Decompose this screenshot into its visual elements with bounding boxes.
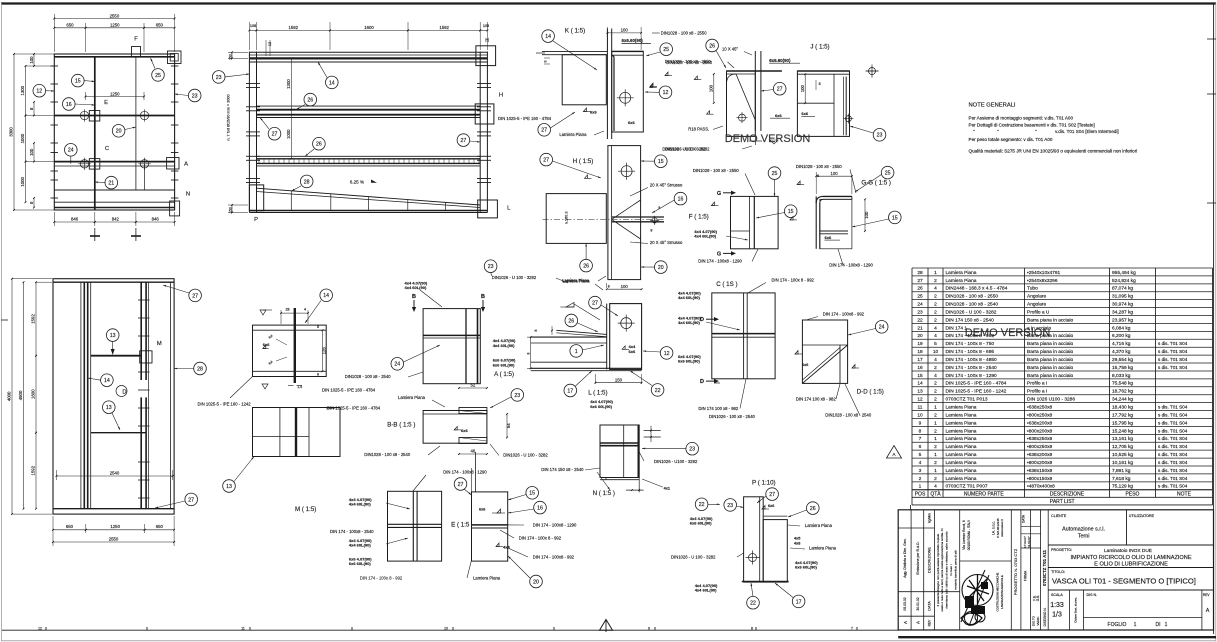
svg-text:VERIF.: VERIF. [1036,616,1040,626]
svg-text:20: 20 [116,129,122,135]
svg-text:1: 1 [934,270,937,276]
balloon 20 [655,261,668,274]
svg-text:▪638x250x8: ▪638x250x8 [1027,436,1053,442]
svg-text:▪800x150x8: ▪800x150x8 [1027,476,1053,482]
svg-text:7: 7 [851,626,853,630]
leader line [597,472,610,490]
svg-text:8: 8 [819,82,821,86]
svg-text:1592: 1592 [31,465,36,475]
leader line [736,506,743,508]
balloon 23 [212,71,225,84]
side horizontal [253,435,310,437]
balloon 26 [304,93,317,106]
svg-text:FOGLIO: FOGLIO [1108,622,1127,628]
svg-text:DIN1026 - U100 - 3282: DIN1026 - U100 - 3282 [662,147,706,152]
svg-text:15,759 kg: 15,759 kg [1112,365,1133,371]
hole mark [78,109,90,121]
balloon 1 [570,345,583,358]
weld symbol [650,86,657,88]
svg-text:6x6: 6x6 [461,428,468,433]
svg-text:64: 64 [506,423,511,428]
svg-text:2550: 2550 [109,536,119,541]
dimension 2540 [57,475,173,477]
svg-text:126: 126 [321,347,326,355]
leader line [46,90,55,92]
svg-text:108: 108 [483,24,489,28]
svg-text:6x6: 6x6 [768,504,774,508]
svg-text:FIRMA: FIRMA [1024,570,1028,581]
dimension 1600 [35,356,37,433]
svg-text:DIN 174 - 100x 8 - 2540: DIN 174 - 100x 8 - 2540 [946,365,998,371]
svg-text:NUMERO PARTE: NUMERO PARTE [964,491,1004,497]
svg-text:IMPIANTO RICIRCOLO OLIO DI LAM: IMPIANTO RICIRCOLO OLIO DI LAMINAZIONE [1070,555,1191,561]
G-G outline right [851,196,853,199]
svg-text:2: 2 [934,381,937,387]
dimension 100 [816,175,852,177]
dimension 4900 [23,282,25,509]
leader line [470,141,481,142]
titolo row [1048,589,1213,591]
leader line [112,341,114,352]
K beam [562,55,606,105]
N bottom strip [600,479,639,481]
svg-text:30.01.02: 30.01.02 [916,597,920,610]
dimension 1000 [25,162,27,203]
leader line [850,126,873,133]
leader line [305,301,321,324]
leader line [578,323,599,332]
svg-text:8: 8 [527,352,531,354]
panel outline [54,54,174,210]
leader line [508,556,530,578]
E weld marks [497,509,501,513]
svg-text:846: 846 [152,217,160,222]
svg-text:1: 1 [934,468,937,474]
svg-text:8: 8 [544,61,548,63]
svg-text:▪800x200x8: ▪800x200x8 [1027,428,1053,434]
leader line [464,489,472,495]
shelf M [91,355,142,357]
weld symbol [665,75,672,77]
svg-text:Lamiera Piana: Lamiera Piana [946,420,977,426]
svg-text:27: 27 [917,278,923,284]
svg-text:DIN 1025-5 - IPE 160 - 4784: DIN 1025-5 - IPE 160 - 4784 [322,388,376,393]
leader line [645,91,659,93]
splice bold weld line [294,308,296,383]
svg-text:30,974 kg: 30,974 kg [1112,302,1133,308]
B-B plate [423,411,487,444]
svg-text:100: 100 [830,171,838,176]
svg-text:26: 26 [583,264,589,270]
balloon 16 [674,192,687,205]
leader line [852,219,889,227]
balloon 24 [875,321,888,334]
svg-text:C ( 1S ): C ( 1S ) [716,281,737,288]
dimension 2550 [54,18,174,20]
svg-text:11: 11 [918,405,923,411]
svg-text:Terni: Terni [1078,534,1090,540]
svg-text:E: E [104,100,108,106]
svg-text:13: 13 [110,333,116,339]
svg-text:DIN 174 - 100x8 - 2540: DIN 174 - 100x8 - 2540 [330,529,374,534]
leader line [175,94,189,96]
dimension 100 [864,199,866,231]
svg-text:15: 15 [892,215,898,221]
N inner vertical [623,425,625,478]
svg-text:23: 23 [917,309,923,315]
svg-text:DIN1026 - U 100 - 3282: DIN1026 - U 100 - 3282 [671,554,716,559]
svg-text:7,891 kg: 7,891 kg [1112,468,1131,474]
svg-text:1600: 1600 [364,25,374,30]
svg-text:14: 14 [329,80,335,86]
leader line [757,496,766,503]
svg-text:Agg. Distinta e Dim. Gen.: Agg. Distinta e Dim. Gen. [903,538,907,578]
splice beam [253,325,327,376]
svg-text:14: 14 [545,34,551,40]
svg-text:13: 13 [226,484,232,490]
svg-text:1: 1 [934,405,937,411]
svg-text:Via Lorenzo Rocci, 6: Via Lorenzo Rocci, 6 [962,520,966,550]
C plate [712,293,775,379]
svg-text:DIN1028 - 100 x8 - 2540: DIN1028 - 100 x8 - 2540 [345,374,392,379]
general notes [969,103,1138,154]
detail view D-D (1:5) [795,311,888,417]
svg-text:15: 15 [788,209,794,215]
svg-text:1250: 1250 [110,91,120,96]
L vertical plate [610,304,642,370]
svg-text:8: 8 [658,206,660,210]
svg-text:27: 27 [461,138,467,144]
svg-text:N ( 1:5 ): N ( 1:5 ) [593,490,615,497]
svg-text:Per Assieme di montaggio segme: Per Assieme di montaggio segmenti: v.dis… [969,116,1074,121]
svg-text:8: 8 [317,325,319,329]
svg-text:52: 52 [471,383,476,388]
svg-text:DIN 174 - 100x 8 - 992: DIN 174 - 100x 8 - 992 [360,575,403,580]
svg-text:s dis. T01 S04: s dis. T01 S04 [1158,412,1188,417]
corner square bottom left P [249,185,263,211]
svg-text:1: 1 [934,452,937,458]
svg-text:12: 12 [663,90,669,96]
svg-text:4x4 60L(90): 4x4 60L(90) [678,295,700,300]
detail view G-G (1:5) [796,164,901,267]
svg-text:s dis. T01 S04: s dis. T01 S04 [1158,420,1188,425]
N horizontal pair [600,442,639,444]
balloon 27 [268,127,281,140]
leader line [292,186,302,191]
leader line [601,305,618,316]
svg-text:16: 16 [678,197,684,203]
svg-text:DIN 174 100 x8 - 982: DIN 174 100 x8 - 982 [698,406,738,411]
top beam [249,51,487,53]
L bottom double [531,367,642,369]
svg-text:Profilo a I: Profilo a I [1027,389,1047,395]
svg-text:s dis. T01 S04: s dis. T01 S04 [1158,436,1188,441]
leader line [125,127,136,130]
svg-text:18,762 kg: 18,762 kg [1112,389,1133,395]
svg-text:2: 2 [934,412,937,418]
balloon 27 [540,153,553,166]
detail view E (1:5) [451,452,577,588]
dim 12 small [265,40,267,56]
svg-text:Il presente disegno non potrà: Il presente disegno non potrà essere rip… [936,533,940,606]
svg-text:▪2540x8x3296: ▪2540x8x3296 [1027,278,1058,284]
J plate [797,71,849,136]
svg-text:1:33: 1:33 [1050,602,1064,609]
weld symbol [790,219,797,221]
svg-text:DIN 1025-5 - IPE 160 - 4784: DIN 1025-5 - IPE 160 - 4784 [498,116,552,121]
svg-text:E ( 1:5: E ( 1:5 [451,522,470,529]
weld symbol [762,508,769,510]
balloon 23 [484,260,497,273]
svg-text:2: 2 [934,294,937,300]
balloon 27 [766,488,779,501]
svg-text:POS: POS [915,491,926,497]
leader line [726,236,748,240]
short vertical at 144 [144,164,146,190]
balloon 26 [580,259,593,272]
dimension 2550 [53,541,174,543]
svg-text:14: 14 [917,381,923,387]
svg-text:25: 25 [885,171,891,177]
svg-text:15: 15 [75,79,81,85]
svg-text:12: 12 [917,397,923,403]
svg-text:17: 17 [796,599,802,605]
svg-text:4x4 60L(90): 4x4 60L(90) [493,343,515,348]
fold tick left edge [1,319,8,321]
svg-text:v.dis. T01 S04 [Elem Intermedi: v.dis. T01 S04 [Elem Intermedi] [1055,129,1119,134]
dimension 1592 [35,282,37,356]
leader line [112,413,120,430]
D-D plate [802,320,847,383]
svg-text:150: 150 [229,207,233,213]
svg-text:2: 2 [934,309,937,315]
svg-text:6x6: 6x6 [479,508,485,512]
leader line [84,80,95,83]
svg-text:A ( 1:5): A ( 1:5) [494,371,514,378]
svg-text:100: 100 [621,28,629,33]
svg-text:15: 15 [529,491,535,497]
svg-text:J ( 1:5): J ( 1:5) [810,44,829,51]
svg-text:1600: 1600 [31,389,36,399]
leader line [70,156,72,164]
svg-text:DIN 174 1: DIN 174 1 [946,325,968,331]
svg-text:26: 26 [810,506,816,512]
svg-text:10 X 45°: 10 X 45° [722,46,738,51]
svg-text:1: 1 [575,349,578,355]
svg-text:Qualità materiali: S275 JR UNI: Qualità materiali: S275 JR UNI EN 10025/… [969,149,1138,154]
svg-text:4x4 60L(90): 4x4 60L(90) [694,234,716,239]
svg-text:I.A. s.n.c.: I.A. s.n.c. [992,521,996,535]
dimension 1000 [25,116,27,162]
balloon 26 [313,137,326,150]
svg-text:Barra piana in acciaio: Barra piana in acciaio [1027,333,1073,339]
svg-text:D: D [122,390,126,396]
svg-text:B: B [481,294,485,300]
K angle [612,56,614,132]
svg-text:DIN 1025-5 - IPE 160 - 1242: DIN 1025-5 - IPE 160 - 1242 [198,401,252,406]
svg-text:DIN 1025-5 - IPE 160 - 4784: DIN 1025-5 - IPE 160 - 4784 [946,381,1007,387]
svg-text:Lamiera Piana: Lamiera Piana [946,460,977,466]
svg-text:4: 4 [934,357,937,363]
svg-text:s dis. T01 S04: s dis. T01 S04 [1158,468,1188,473]
svg-text:DIN 174 - 100x 8 - 695: DIN 174 - 100x 8 - 695 [946,349,995,355]
svg-text:usato o reso noto a terzi, sen: usato o reso noto a terzi, senza nostra … [940,528,944,612]
leader line [95,181,105,184]
svg-text:DIN1028 - 100 x8 - 2550: DIN1028 - 100 x8 - 2550 [946,294,999,300]
balloon 26 [807,502,820,515]
svg-text:1250: 1250 [110,524,120,529]
dimension 100 [804,74,806,103]
svg-text:1: 1 [1134,622,1137,628]
svg-text:6x6.60(90): 6x6.60(90) [622,38,644,43]
bottom dimensions [53,212,55,226]
svg-text:6: 6 [919,444,922,450]
dimension 1250 [86,529,145,531]
detail view H (1:5) [540,146,706,284]
balloon 23 [511,389,524,402]
diagonal [736,74,755,120]
J cross right [866,70,878,72]
dim 2540 [56,470,58,480]
A dim 100 [606,283,608,288]
svg-text:6.25 %: 6.25 % [350,180,364,185]
svg-text:Per Dettagli di Costruzione ba: Per Dettagli di Costruzione basamenti v … [969,122,1095,127]
svg-text:DIN1026 - U100 - 3282: DIN1026 - U100 - 3282 [654,459,698,464]
dimension [530,337,532,368]
balloon 20 [530,575,543,588]
svg-text:150: 150 [615,377,623,382]
svg-text:1592: 1592 [31,314,36,324]
B plate [423,309,480,384]
balloon 23 [188,89,201,102]
svg-text:a in acciaio: a in acciaio [1027,325,1051,331]
svg-text:524,824 kg: 524,824 kg [1112,278,1136,284]
svg-text:H ( 1:5): H ( 1:5) [573,158,594,165]
svg-text:2: 2 [919,476,922,482]
dimension 8 [33,102,35,116]
leader line [234,457,254,482]
left dimension lines [14,53,54,55]
leader line [641,266,655,268]
balloon 26 [565,314,578,327]
svg-text:DIN1028 - 100 x8 - 2550: DIN1028 - 100 x8 - 2550 [796,164,843,169]
left post [248,52,250,213]
svg-text:CLIENTE: CLIENTE [1051,514,1067,518]
svg-text:100: 100 [800,85,805,93]
svg-text:1: 1 [1165,622,1168,628]
svg-text:13,161 kg: 13,161 kg [1112,436,1133,442]
svg-text:E OLIO DI LUBRIFICAZIONE: E OLIO DI LUBRIFICAZIONE [1094,562,1168,568]
svg-text:Lamiera Piana: Lamiera Piana [946,270,977,276]
svg-text:riserviamo tutti i diritti su: riserviamo tutti i diritti su di esso e … [945,531,949,609]
balloon 22 [695,498,708,511]
H vertical plate [608,146,641,280]
leader line [508,495,526,501]
svg-text:8: 8 [534,329,538,331]
svg-text:DIN1028 - 100 x8 - 2540: DIN1028 - 100 x8 - 2540 [364,452,411,457]
svg-text:DIN 174 - 100x 8 - 992: DIN 174 - 100x 8 - 992 [946,333,995,339]
J inner lines [833,74,835,136]
svg-text:2: 2 [934,389,937,395]
M plate [388,491,442,561]
svg-text:108: 108 [250,24,256,28]
svg-text:2: 2 [934,428,937,434]
svg-text:1: 1 [934,436,937,442]
svg-text:6x6: 6x6 [263,342,270,347]
svg-text:1000: 1000 [286,129,291,139]
section arrow B [413,300,415,307]
weld symbol [711,205,718,207]
leader line [706,322,740,330]
balloon 16 [534,501,547,514]
svg-text:1000: 1000 [20,177,25,187]
svg-text:15,795 kg: 15,795 kg [1112,420,1133,426]
svg-text:20 X 45° Smusso: 20 X 45° Smusso [650,240,683,245]
leader line [756,213,785,219]
bottom sloped member [257,188,481,205]
leader line [225,74,249,77]
svg-text:P: P [254,217,258,223]
svg-text:▪638x200x8: ▪638x200x8 [1027,452,1053,458]
svg-text:15: 15 [917,373,923,379]
hole ticks [138,299,150,301]
detail view F (1:5) [689,167,797,264]
svg-text:6x6.60(90): 6x6.60(90) [769,58,791,63]
leader line [642,447,686,449]
svg-text:6x6: 6x6 [590,109,597,114]
svg-text:25: 25 [772,171,778,177]
weld symbol [795,353,802,355]
splice finish marks [260,310,266,315]
dimension 842 [95,221,136,223]
H beam left [546,194,606,244]
svg-text:F: F [134,37,138,43]
svg-text:9: 9 [919,420,922,426]
svg-text:Barra piana in acciaio: Barra piana in acciaio [1027,317,1073,323]
svg-text:G.B.: G.B. [1036,595,1040,601]
svg-text:2: 2 [934,460,937,466]
svg-text:s dis. T01 S04: s dis. T01 S04 [1158,476,1188,481]
section arrow G [723,192,731,194]
panel outline [53,279,174,514]
svg-text:1300: 1300 [20,85,25,95]
svg-text:M: M [157,341,162,347]
detail view B [345,280,486,383]
svg-text:24: 24 [917,302,923,308]
svg-text:COSTRUZIONI MECCANICHE: COSTRUZIONI MECCANICHE [996,572,1000,611]
svg-text:4x1: 4x1 [664,486,670,490]
svg-text:DIN1026 - U 100 - 3282: DIN1026 - U 100 - 3282 [492,275,537,280]
logo mark [962,575,993,606]
svg-text:29,554 kg: 29,554 kg [1112,357,1133,363]
svg-text:4x4 60L(90): 4x4 60L(90) [678,320,700,325]
svg-text:NOTE GENERALI: NOTE GENERALI [969,103,1016,109]
dimension 100 [713,74,715,103]
leader line [643,351,660,352]
A beam [531,336,607,338]
leader line [305,149,314,156]
svg-text:11.03.07: 11.03.07 [1027,536,1031,548]
svg-text:DIN1028 - 100 x8 - 2550: DIN1028 - 100 x8 - 2550 [665,59,712,64]
balloon 23 [724,499,737,512]
svg-text:650: 650 [156,23,164,28]
svg-text:6x6: 6x6 [775,113,782,118]
svg-text:Lamiera Piana: Lamiera Piana [946,452,977,458]
section arrow G [723,252,731,254]
leader line [761,90,773,92]
dimension 650 [145,529,175,531]
L dim 150 [594,374,596,384]
